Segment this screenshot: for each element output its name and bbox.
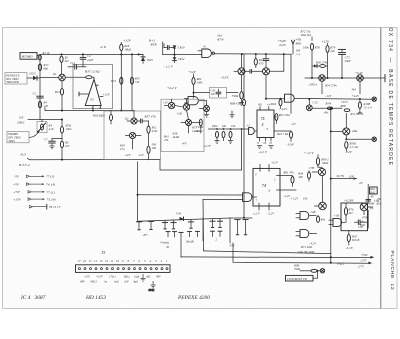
svg-text:13: 13 xyxy=(100,259,104,263)
wire left rail xyxy=(39,54,41,119)
label -2.2V right of U3 xyxy=(284,194,292,199)
svg-text:4 0m(s): 4 0m(s) xyxy=(160,240,169,244)
label box FRAME NIV TRIG xyxy=(7,131,29,143)
transistor Q3a xyxy=(163,99,175,109)
svg-text:100k: 100k xyxy=(197,81,204,85)
resistor R108 xyxy=(358,99,372,113)
svg-text:47B: 47B xyxy=(230,243,235,247)
label cluster right column top xyxy=(295,38,302,57)
capacitor C90 xyxy=(355,215,369,229)
bottom caption HD1453 xyxy=(85,295,106,301)
box multivibrator 2 xyxy=(161,99,204,151)
resistor R58a xyxy=(147,146,150,160)
label 500 18k xyxy=(152,143,157,151)
IC U2 top pins xyxy=(258,103,271,110)
label J3 xyxy=(101,250,106,255)
svg-text:+12V: +12V xyxy=(103,93,111,97)
svg-text:+15V: +15V xyxy=(96,275,104,279)
pin header T5a xyxy=(235,220,240,235)
label +12V opamp feed xyxy=(188,70,197,74)
label box R0x B42 xyxy=(369,187,377,194)
wire R27 to op-amp xyxy=(92,77,94,79)
svg-text:17(1): 17(1) xyxy=(109,275,116,279)
wire R13 to output rail xyxy=(61,95,63,111)
label +12V rail B xyxy=(123,39,132,43)
wire G4 input upper xyxy=(137,194,239,196)
resistor R48 emitter xyxy=(232,92,244,103)
wire retrigger feed xyxy=(330,174,364,185)
label 41B xyxy=(100,45,106,49)
svg-text:CONTROLE FR: CONTROLE FR xyxy=(287,277,307,281)
svg-text:R54 274k: R54 274k xyxy=(324,83,337,87)
svg-text:72-1-4: 72-1-4 xyxy=(364,106,372,110)
svg-text:R37 12 kΩ: R37 12 kΩ xyxy=(84,69,100,73)
svg-text:1k5: 1k5 xyxy=(65,144,70,148)
svg-text:10n: 10n xyxy=(210,92,215,96)
label -1.2V xyxy=(164,64,174,69)
label 4x/3 xyxy=(19,153,30,168)
svg-text:24k: 24k xyxy=(330,49,335,53)
svg-text:IC 4 3687: IC 4 3687 xyxy=(20,295,46,301)
svg-text:(0k4: (0k4 xyxy=(212,124,218,128)
resistor R94 xyxy=(270,99,282,108)
svg-text:+12V: +12V xyxy=(123,39,132,43)
svg-text:R71 40Ω: R71 40Ω xyxy=(300,245,313,249)
wire jumper bar right xyxy=(230,218,252,243)
wire jumper rail xyxy=(138,218,231,221)
transistor Q14 xyxy=(360,202,374,215)
label B+2 RTR xyxy=(149,38,157,46)
resistor R27 xyxy=(86,76,92,79)
svg-text:200/1: 200/1 xyxy=(17,121,25,125)
svg-text:-275: -275 xyxy=(358,264,365,268)
svg-text:C7: C7 xyxy=(44,137,48,141)
wire center rail v3 xyxy=(243,54,245,219)
node terminal J4 xyxy=(320,269,324,273)
resistor R51 xyxy=(317,65,328,68)
svg-text:C13: C13 xyxy=(313,101,319,105)
gate G4 xyxy=(238,193,253,202)
label R54 xyxy=(324,83,337,87)
label -12V D xyxy=(325,94,332,98)
bottom caption PEPEXE 4200 xyxy=(177,295,210,301)
svg-text:C7B: C7B xyxy=(309,166,315,170)
svg-text:HD 1453: HD 1453 xyxy=(85,295,106,301)
node legend +5V xyxy=(13,182,56,187)
svg-text:C90: C90 xyxy=(358,225,364,229)
label S/3 xyxy=(17,116,25,125)
label -4.2V L xyxy=(300,241,317,249)
svg-text:RTR: RTR xyxy=(150,43,158,47)
svg-text:77 (1): 77 (1) xyxy=(46,175,55,179)
svg-text:743: 743 xyxy=(135,80,140,84)
resistor R64 xyxy=(192,74,203,98)
resistor R0A xyxy=(297,171,310,181)
socket S2b xyxy=(160,232,177,249)
svg-text:/B: /B xyxy=(165,245,169,249)
svg-text:10k: 10k xyxy=(303,197,308,201)
svg-text:b: b xyxy=(269,188,271,192)
svg-text:1N23: 1N23 xyxy=(29,72,36,76)
svg-text:47k: 47k xyxy=(164,138,169,142)
resistor R62 xyxy=(222,131,225,140)
svg-text:78 11 17: 78 11 17 xyxy=(49,205,61,209)
IC U3 bottom pins xyxy=(253,206,276,216)
svg-text:B2x: B2x xyxy=(377,202,382,206)
node legend -15V xyxy=(13,190,56,194)
wire CONTROLE link xyxy=(313,270,319,278)
diode CR1 xyxy=(27,72,40,81)
transistor Q9 xyxy=(306,105,312,111)
resistor R92 xyxy=(274,113,296,126)
resistor R98 xyxy=(293,263,320,272)
wire clamp rail xyxy=(163,42,201,56)
pin header T2a xyxy=(162,220,167,229)
wire socket drop mid xyxy=(202,218,204,241)
svg-text:10kΩ: 10kΩ xyxy=(321,161,328,165)
label -12V F xyxy=(345,150,353,154)
resistor R81 xyxy=(283,171,295,187)
svg-text:12: 12 xyxy=(105,259,109,263)
svg-text:R92 27k2: R92 27k2 xyxy=(278,113,291,117)
label box CONTROLE xyxy=(286,275,314,281)
node legend gnd xyxy=(30,204,61,209)
node output rail junctions xyxy=(61,110,122,112)
wire bus line lower xyxy=(233,243,372,264)
wire U2 lower right pin xyxy=(274,130,291,132)
svg-text:41/3: 41/3 xyxy=(20,153,26,157)
diode CR20 xyxy=(176,212,184,221)
label -4V xyxy=(182,142,188,146)
wire long rail x291 xyxy=(290,54,292,113)
resistor R44 xyxy=(276,131,293,141)
svg-text:R08: R08 xyxy=(340,104,346,108)
svg-text:PLANCHE 12: PLANCHE 12 xyxy=(389,251,395,291)
svg-text:4kΩ4: 4kΩ4 xyxy=(196,129,203,133)
capacitor C75 xyxy=(339,49,352,78)
svg-text:72: 72 xyxy=(269,141,273,145)
wire right column net xyxy=(367,184,369,228)
transistor Q12 xyxy=(309,166,326,203)
label +0.2BV xyxy=(344,197,382,206)
wire long gate feed rail xyxy=(28,129,242,170)
resistor R93 xyxy=(316,155,329,169)
svg-text:39pF: 39pF xyxy=(345,59,352,63)
svg-text:C2: C2 xyxy=(33,91,37,95)
svg-text:05: 05 xyxy=(90,97,94,101)
ground under C7 xyxy=(49,143,54,149)
wire G4 input lower xyxy=(203,199,238,251)
bottom caption IC 4 3687 xyxy=(20,295,46,301)
socket S3a xyxy=(188,231,192,236)
label 3k3 xyxy=(352,87,361,99)
node legend -5V xyxy=(14,175,55,179)
svg-text:1N25: 1N25 xyxy=(146,58,153,62)
svg-text:R78: R78 xyxy=(314,45,320,49)
svg-text:R9B: R9B xyxy=(368,202,374,206)
socket S4b xyxy=(218,231,222,236)
label (0) xyxy=(370,206,374,210)
label +12V G xyxy=(304,151,314,155)
svg-text:10k4: 10k4 xyxy=(66,127,72,131)
svg-text:+12V: +12V xyxy=(188,70,197,74)
capacitor C22 xyxy=(245,70,262,73)
IC U2 74a box xyxy=(257,110,274,138)
svg-text:2N914: 2N914 xyxy=(309,82,318,86)
svg-text:243: 243 xyxy=(44,104,49,108)
svg-text:R81 47k: R81 47k xyxy=(283,171,295,175)
svg-text:15: 15 xyxy=(89,259,93,263)
resistor R58 xyxy=(345,142,359,152)
label -4.2V xyxy=(221,75,229,80)
label R33 xyxy=(119,143,125,151)
pin header T2b xyxy=(171,220,176,229)
svg-text:CR12: CR12 xyxy=(178,57,185,61)
svg-text:R8B: R8B xyxy=(295,41,301,45)
resistor R73 xyxy=(191,119,202,133)
diode CR10 xyxy=(173,45,185,54)
label -3.1V xyxy=(346,246,354,251)
svg-text:4k4Ω: 4k4Ω xyxy=(173,135,180,139)
IC U2 bottom pins xyxy=(257,138,273,146)
capacitor C7 xyxy=(44,137,62,143)
label R41 xyxy=(163,135,169,143)
svg-text:B-3-5-4: B-3-5-4 xyxy=(19,163,30,167)
node terminal J1 xyxy=(372,97,376,101)
op-amp enclosure box xyxy=(73,64,113,108)
svg-text:10: 10 xyxy=(116,259,120,263)
resistor R78 xyxy=(303,37,320,78)
svg-text:4k7: 4k7 xyxy=(349,211,354,215)
svg-text:40x: 40x xyxy=(324,110,329,114)
socket S2a xyxy=(166,232,170,237)
box multivibrator 1 xyxy=(104,111,161,160)
label -273 xyxy=(360,253,369,262)
svg-text:R57 47k: R57 47k xyxy=(144,115,157,119)
svg-text:a: a xyxy=(267,126,269,130)
svg-text:C94: C94 xyxy=(176,212,182,216)
svg-text:TRIG: TRIG xyxy=(8,139,16,143)
label -12V left xyxy=(125,153,132,157)
transistor Q7 xyxy=(355,71,364,93)
wire bias row xyxy=(209,128,250,130)
svg-text:400: 400 xyxy=(298,175,303,179)
svg-text:R44 +4Ω: R44 +4Ω xyxy=(276,132,289,136)
transistor Q4 xyxy=(234,54,245,91)
pin header T3 xyxy=(188,219,193,228)
label bias row left xyxy=(196,125,204,133)
svg-text:Q2: Q2 xyxy=(125,116,129,120)
IC U3 top pins xyxy=(260,160,279,168)
svg-text:PEPEXE 4200: PEPEXE 4200 xyxy=(177,295,210,301)
wire socket drop left xyxy=(179,232,183,257)
svg-text:R50 274k: R50 274k xyxy=(315,60,328,64)
node connector pin numbers xyxy=(78,259,169,263)
svg-text:R4x: R4x xyxy=(320,217,326,221)
resistor R1 xyxy=(38,51,50,60)
resistor R1B inside multivib xyxy=(92,111,113,125)
wire Q1 to R27 xyxy=(65,76,85,78)
capacitor C23 xyxy=(263,54,269,61)
transistor Q13 xyxy=(315,202,327,210)
capacitor C16 xyxy=(137,119,148,123)
wire rail B down left xyxy=(120,54,122,111)
gate G1 xyxy=(185,97,207,106)
ground under Q8 xyxy=(204,114,209,117)
svg-text:Q1: Q1 xyxy=(53,72,57,76)
pin header T5b xyxy=(230,220,249,248)
ground under R61 xyxy=(214,141,219,144)
svg-text:18k: 18k xyxy=(152,146,157,150)
svg-text:J3: J3 xyxy=(101,250,106,255)
margin text PLANCHE 12 xyxy=(389,251,395,291)
resistor R13 xyxy=(54,89,64,95)
frame inner right rule xyxy=(380,28,382,309)
label +4.2V xyxy=(167,86,177,91)
label +5.6V -0.2V xyxy=(278,39,288,48)
svg-text:⊢4: ⊢4 xyxy=(296,52,301,56)
svg-text:S/3: S/3 xyxy=(19,116,24,120)
svg-text:4700: 4700 xyxy=(362,215,369,219)
svg-text:750Ω: 750Ω xyxy=(232,94,240,98)
ground under R48 xyxy=(239,103,244,106)
label 10k 10k xyxy=(212,124,236,128)
wire Q9 collector row xyxy=(313,101,343,110)
svg-text:-12V: -12V xyxy=(345,150,353,154)
svg-text:R5W: R5W xyxy=(325,101,332,105)
transistor Q6 xyxy=(309,75,325,94)
label cluster above Q4 xyxy=(216,34,224,42)
connector J3 body xyxy=(76,265,171,273)
gate G2 xyxy=(198,44,214,57)
svg-text:+12V: +12V xyxy=(322,40,331,44)
resistor R52 xyxy=(147,121,158,146)
svg-text:14: 14 xyxy=(94,259,98,263)
svg-text:Fig 2: Fig 2 xyxy=(336,262,345,266)
IC U3 74b box xyxy=(253,168,280,206)
resistor R56 xyxy=(344,109,364,116)
svg-text:+15V: +15V xyxy=(13,197,22,201)
op-amp U1 xyxy=(79,79,111,105)
wire rail x331 long xyxy=(330,110,332,263)
svg-text:74B: 74B xyxy=(311,210,316,214)
svg-text:(0m)B: (0m)B xyxy=(186,240,194,244)
wire R64 to C41 box xyxy=(193,92,239,94)
pin header T1b xyxy=(143,221,154,237)
resistor R0B xyxy=(229,99,246,106)
svg-text:7Δ: 7Δ xyxy=(263,141,267,145)
connector pin labels below xyxy=(80,275,162,284)
svg-text:R74: R74 xyxy=(110,79,116,83)
resistor R2 xyxy=(60,55,70,63)
diode CR8 xyxy=(312,64,317,67)
wire top rail xyxy=(37,54,143,56)
svg-text:40Ω 404: 40Ω 404 xyxy=(301,33,312,37)
pin header T1a xyxy=(136,222,141,230)
label box RETARD xyxy=(20,53,37,60)
wire bus line mid xyxy=(204,251,331,254)
ground connector left xyxy=(140,274,145,281)
node arrow terminal xyxy=(292,40,295,54)
svg-text:68k: 68k xyxy=(44,67,49,71)
svg-text:R7x 3B-14: R7x 3B-14 xyxy=(350,112,364,116)
transistor Q3b xyxy=(175,99,190,115)
svg-text:74: 74 xyxy=(262,183,267,188)
node output terminal J2 xyxy=(372,137,376,141)
wire Q5 emitter feed xyxy=(265,98,285,100)
wire rail B down right xyxy=(131,54,133,111)
svg-text:10k: 10k xyxy=(231,124,236,128)
IC U3 right pins xyxy=(280,176,296,190)
gate G3 xyxy=(247,124,258,135)
gate G8 xyxy=(296,230,317,238)
label +12V right xyxy=(322,40,331,44)
svg-text:470: 470 xyxy=(259,61,264,65)
wire Q1 collector xyxy=(61,81,63,89)
svg-text:+4: +4 xyxy=(267,103,271,107)
capacitor C14 xyxy=(68,61,86,69)
svg-text:47k4: 47k4 xyxy=(152,129,158,133)
resistor R6 xyxy=(60,141,69,160)
resistor R5 xyxy=(60,120,71,142)
pin header T4a xyxy=(210,219,215,228)
svg-text:4k7: 4k7 xyxy=(65,59,70,63)
svg-text:R1B (0Ω1: R1B (0Ω1 xyxy=(92,114,106,118)
transistor Q3c xyxy=(181,110,192,133)
label box PENDULE NIV TRIGGER xyxy=(5,73,27,85)
gate G6 xyxy=(285,94,310,105)
label +42V R08 xyxy=(340,100,350,108)
ground under U2 pin72 xyxy=(268,146,273,149)
svg-text:1kpl: 1kpl xyxy=(134,275,139,279)
wire gate output to terminal rail xyxy=(294,98,372,100)
label Fig2 -275 xyxy=(336,262,364,269)
svg-text:+2: +2 xyxy=(247,124,251,128)
transistor Q5 xyxy=(263,61,270,99)
node top rail junctions xyxy=(61,53,134,55)
svg-text:TRIGGER: TRIGGER xyxy=(6,80,19,84)
capacitor C44 xyxy=(366,199,379,203)
transistor Q2a xyxy=(125,111,137,125)
label R72 xyxy=(300,29,312,37)
ground node mid xyxy=(229,111,234,118)
resistor R45 xyxy=(130,76,140,84)
svg-text:+5V: +5V xyxy=(13,182,20,186)
svg-text:71: 71 xyxy=(257,141,261,145)
wire output rail xyxy=(45,108,134,111)
transistor Q11 xyxy=(330,113,358,134)
label -2.7V xyxy=(203,144,212,149)
svg-text:CR10: CR10 xyxy=(178,46,185,50)
wire pot wiper arrow xyxy=(30,130,40,138)
ground connector mid xyxy=(149,281,156,292)
svg-text:43(1): 43(1) xyxy=(90,279,97,283)
svg-text:+ 12 V: + 12 V xyxy=(304,151,314,155)
socket S4a xyxy=(211,231,218,241)
gate G7 xyxy=(296,210,316,219)
svg-text:+1B: +1B xyxy=(334,213,340,217)
resistor R85 xyxy=(317,216,326,223)
svg-text:4(7/8: 4(7/8 xyxy=(217,37,224,41)
resistor R76 xyxy=(344,203,353,222)
svg-text:41: 41 xyxy=(203,44,207,48)
svg-text:750/: 750/ xyxy=(362,253,369,257)
resistor R43 xyxy=(254,54,264,68)
svg-text:B(1): B(1) xyxy=(124,275,129,279)
svg-text:-15V: -15V xyxy=(13,190,21,194)
label -3.0V xyxy=(286,142,295,147)
svg-text:(0): (0) xyxy=(370,206,374,210)
